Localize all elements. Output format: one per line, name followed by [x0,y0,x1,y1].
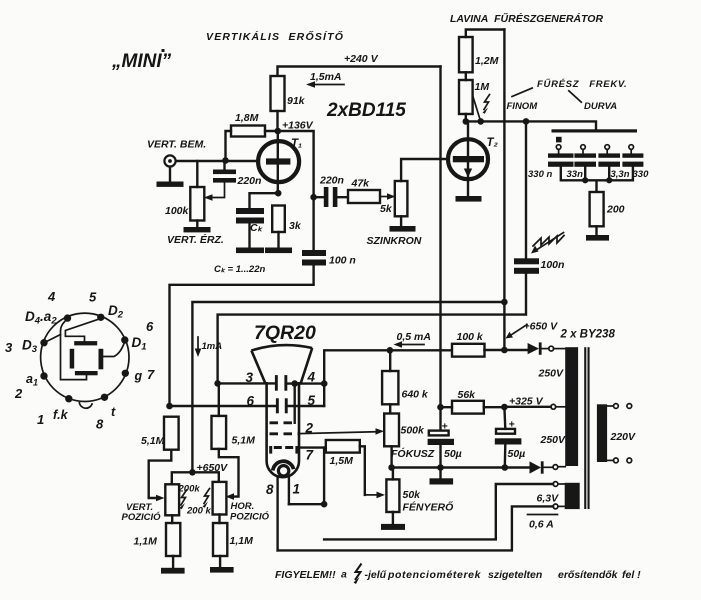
svg-text:g: g [134,369,143,383]
resistor 640k [382,350,429,413]
svg-text:+: + [509,419,515,431]
resistor 5,1M right [212,383,256,449]
svg-text:100 k: 100 k [457,331,484,343]
svg-text:5,1M: 5,1M [141,435,165,447]
svg-text:VERT. ÉRZ.: VERT. ÉRZ. [167,233,224,246]
wire grid7 [298,446,325,448]
resistor 47k [348,178,380,204]
svg-text:1M: 1M [475,81,490,93]
deflection plates 6-5 [247,393,316,413]
node +650V rectifier [501,347,508,354]
node 1M bottom [463,118,470,125]
annotation line DURVA [569,91,582,102]
svg-text:fel !: fel ! [622,569,641,581]
node FINOM [523,118,530,125]
svg-text:POZICIÓ: POZICIÓ [230,511,270,523]
svg-text:5: 5 [89,290,97,305]
grid 7 marks [269,446,314,463]
svg-text:2xBD115: 2xBD115 [326,100,406,121]
transistor T2 [448,121,499,196]
svg-text:6: 6 [146,319,154,334]
ground 1,1M left [161,568,185,574]
wire 5,1M right to wiper [219,449,239,500]
svg-text:91k: 91k [287,95,306,107]
switch contacts [556,145,633,154]
svg-text:a1: a1 [26,372,38,388]
capacitor 33n [567,153,597,180]
svg-text:3,3n: 3,3n [611,169,630,180]
ground T2 [456,196,482,202]
potentiometer 500k FOKUSZ [384,414,435,468]
wire plate3 [218,382,275,384]
node pots feed [189,469,196,476]
resistor 5,1M left [141,417,179,450]
wire emitter to Ck [250,193,279,208]
resistor 1,1M left [134,515,181,568]
diode BY238 lower [530,461,566,473]
svg-text:FINOM: FINOM [507,101,539,112]
transistor T1 [258,131,302,193]
wire pin1 lead [288,476,290,504]
capacitor Ck [236,208,264,248]
node 500k bottom [388,464,395,471]
svg-text:200k: 200k [178,484,201,495]
socket plate bottom [75,371,98,375]
svg-text:5k: 5k [380,203,393,215]
svg-text:D4.a2: D4.a2 [25,309,57,327]
svg-text:T₂: T₂ [487,137,499,149]
socket lead D2 [65,319,100,342]
svg-text:D1: D1 [132,335,147,353]
resistor 1,8M [226,112,275,160]
wire plate6 [170,405,276,407]
wire plate5 [288,405,325,407]
socket plate top [74,341,97,345]
wire +650V feed to position pots [192,302,504,472]
wire pin8 lead [276,477,278,550]
svg-text:250V: 250V [540,434,567,446]
transformer HV winding [565,347,578,466]
transformer 6,3V winding [565,483,580,509]
node plate4 inner [291,380,298,387]
wire +240V rail [278,67,441,77]
bolt 200k left [180,490,187,509]
current arrow 1,5mA [306,71,344,88]
node plate4 outer [321,380,328,387]
svg-text:1,8M: 1,8M [235,112,259,124]
svg-text:33n: 33n [567,169,584,180]
wire heater lower [278,506,553,550]
svg-text:FÉNYERŐ: FÉNYERŐ [403,501,454,514]
svg-text:1,5mA: 1,5mA [310,71,342,83]
svg-text:0,5 mA: 0,5 mA [397,331,431,343]
label +650 V [506,321,559,339]
wire anode riser 0,5mA line [324,350,452,406]
svg-text:7QR20: 7QR20 [254,322,316,344]
node 50u1 bottom [437,464,444,471]
capacitor 50u focus [428,421,462,468]
resistor 3k [272,206,302,248]
svg-text:VERT. BEM.: VERT. BEM. [147,139,206,151]
svg-text:4: 4 [47,289,56,304]
svg-text:1,1M: 1,1M [230,535,254,547]
svg-text:FIGYELEM!!: FIGYELEM!! [275,569,336,581]
switch bar [552,129,638,132]
svg-text:100k: 100k [165,205,190,217]
socket plate right [99,349,104,370]
CRT neck [267,382,299,477]
socket pin6 [121,336,128,343]
CRT funnel [251,345,312,350]
primary terminals bottom [607,458,632,463]
node plate3 [214,380,221,387]
node base [222,157,229,164]
svg-text:DURVA: DURVA [584,101,617,112]
label HOR.POZICIO [230,501,270,523]
socket pin5 [97,314,104,321]
wire +240V to PSU drop [439,67,441,431]
svg-text:50µ: 50µ [444,448,462,460]
node 640k top [387,347,394,354]
svg-text:Cₖ: Cₖ [250,222,264,234]
svg-text:+325 V: +325 V [509,396,544,408]
svg-text:4: 4 [307,370,316,385]
svg-text:Cₖ = 1...22n: Cₖ = 1...22n [214,264,266,275]
wire cathode node [289,448,324,505]
svg-text:1: 1 [293,482,301,497]
socket pin1 [65,395,72,402]
svg-text:0,6 A: 0,6 A [529,519,554,531]
capacitor 330 [622,153,649,180]
svg-text:f.k: f.k [53,408,69,422]
svg-text:T₁: T₁ [291,138,302,150]
svg-text:D2: D2 [108,303,124,321]
transformer primary winding [597,404,607,462]
svg-text:330: 330 [633,169,650,180]
svg-text:330 n: 330 n [528,169,552,180]
ground 5k [390,226,416,232]
svg-text:szigetelten: szigetelten [488,569,542,581]
ground 200 [586,235,609,241]
svg-text:„MINI”: „MINI” [111,51,172,72]
svg-text:220n: 220n [319,175,344,187]
svg-text:50µ: 50µ [508,448,526,460]
socket pin8 [101,394,108,401]
svg-text:47k: 47k [351,178,371,190]
svg-text:1,1M: 1,1M [134,536,158,548]
ground 100k [184,227,211,232]
svg-text:POZICIÓ: POZICIÓ [122,511,162,523]
svg-text:200 k: 200 k [186,506,211,517]
node +650V drop [501,299,508,306]
svg-text:LAVINA FŰRÉSZGENERÁTOR: LAVINA FŰRÉSZGENERÁTOR [450,12,603,25]
node cathode [321,501,328,508]
svg-text:220V: 220V [610,431,637,443]
potentiometer 200k left [165,484,200,516]
current arrow 1mA [195,337,223,357]
primary terminals top [607,404,632,409]
capacitor 50u 325 [495,407,525,468]
capacitor 100n vertical amp [302,250,356,267]
potentiometer 100k VERT.ERZ. [165,161,225,227]
resistor 91k [271,76,306,131]
node sync tap [310,194,317,201]
svg-text:5,1M: 5,1M [232,435,256,447]
svg-text:3: 3 [5,340,13,355]
label VERT.POZICIO [122,502,162,523]
resistor 1,2M [459,30,504,73]
svg-text:220n: 220n [237,175,262,187]
svg-text:SZINKRON: SZINKRON [367,235,422,247]
node capbank left [582,177,588,183]
capacitor 100n sawtooth [514,258,564,274]
socket pin7 [122,370,129,377]
diode BY238 upper [528,342,566,354]
cathode curl [273,461,294,476]
svg-text:250V: 250V [538,368,565,380]
capacitor 220n sync [314,175,348,208]
capacitor 3,3n [598,153,629,180]
sawtooth waveform icon [531,233,564,254]
wire +650V drop [503,30,505,350]
svg-text:6,3V: 6,3V [537,493,560,505]
wire grid2 inner lead [294,384,296,423]
socket lead D4 [61,319,87,380]
svg-text:-jelű: -jelű [365,569,387,581]
svg-text:FŰRÉSZ FREKV.: FŰRÉSZ FREKV. [537,78,627,90]
6,3V terminals [553,482,565,509]
svg-text:erősítendők: erősítendők [558,569,619,581]
capacitor 330n [528,153,574,180]
socket plate left [70,349,75,369]
ground 1,1M right [210,567,234,573]
svg-text:50k: 50k [403,489,422,501]
wire pots top link [172,472,219,484]
svg-text:7: 7 [147,367,155,382]
svg-text:3k: 3k [289,220,302,232]
ground Ck [236,248,264,254]
socket lead D1 [103,341,125,357]
potentiometer 200k right [186,482,226,517]
annotation line FINOM [512,88,532,97]
svg-text:D3: D3 [22,338,38,356]
svg-text:640 k: 640 k [402,389,429,401]
svg-text:7: 7 [306,448,315,463]
svg-text:t: t [111,405,116,419]
wire 1,5M to brightness wiper [360,446,385,498]
svg-text:100 n: 100 n [329,255,356,267]
CRT funnel sides [251,348,312,383]
socket pin2 [40,372,47,379]
svg-text:1,2M: 1,2M [475,55,499,67]
wiper arrow into 5k [380,193,396,200]
svg-text:potenciométerek: potenciométerek [387,569,482,581]
resistor 1,5M [326,440,360,467]
node 50u2 bottom [502,464,509,471]
svg-text:8: 8 [96,417,104,432]
transformer core [584,347,589,509]
svg-text:+136V: +136V [282,120,314,132]
svg-text:2: 2 [14,386,23,401]
bolt 1M [483,95,490,114]
wire collector tap [278,131,314,250]
node +325V [501,404,508,411]
resistor 100k anode [452,331,528,357]
tap +325V [504,396,565,410]
svg-text:+: + [442,421,448,433]
grid 2 dashed [270,421,314,436]
socket notch [79,402,92,408]
switch contact square [556,137,562,143]
ground 3k [265,248,292,254]
wire capbank collector [561,167,633,192]
wire plate4 [287,382,324,384]
wire FINOM drop [525,121,527,258]
potentiometer 5k SZINKRON [380,159,448,226]
svg-text:+650 V: +650 V [524,321,559,333]
svg-text:+240 V: +240 V [344,53,379,65]
node plate6 [166,403,173,410]
socket lead D3 [44,335,61,343]
wire 5,1M left to wiper [149,450,172,502]
svg-text:1mA: 1mA [202,341,223,352]
capacitor 220n input [213,161,261,187]
resistor 1,1M right [213,515,253,568]
svg-text:1: 1 [37,412,44,427]
svg-text:56k: 56k [458,389,477,401]
svg-text:200: 200 [606,204,625,216]
wire common 468 [392,466,530,468]
svg-text:2 x BY238: 2 x BY238 [560,329,616,341]
wire sawtooth to plate3 [218,274,526,384]
ground 50u focus [430,468,454,485]
svg-text:500k: 500k [401,425,426,437]
svg-text:100n: 100n [541,259,565,271]
wire heater upper [324,484,553,539]
node +136V [275,120,314,135]
svg-text:a: a [341,569,347,581]
caution bolt [354,564,362,585]
wire bus sawtooth [466,121,596,129]
potentiometer 1M [459,72,489,121]
node emitter T1 [275,190,282,197]
wire 100n to plate6 [170,266,314,407]
svg-text:1,5M: 1,5M [330,455,354,467]
svg-text:HOR.: HOR. [231,501,255,512]
svg-text:8: 8 [266,482,274,497]
ground 50k [381,524,405,530]
resistor 200 [590,192,625,235]
input jack VERT.BEM. [164,155,175,181]
socket circle [41,313,129,401]
ground input [157,182,184,187]
bolt 200k right [203,489,210,508]
deflection plates 3-4 [246,370,316,391]
svg-text:FÓKUSZ: FÓKUSZ [391,447,435,460]
socket pin3 [40,339,47,346]
socket pin4 [64,314,71,321]
node 56k left [437,404,444,411]
resistor 56k [441,389,505,414]
svg-text:VERTIKÁLIS ERŐSÍTŐ: VERTIKÁLIS ERŐSÍTŐ [206,30,344,43]
wire grid2 to focus wiper [300,428,385,435]
node wiper [477,118,484,125]
current arrow 0,5mA [394,331,431,348]
wire base T1 [176,160,259,162]
potentiometer 50k FENYERO [386,468,453,524]
node capbank right [606,177,612,183]
label 0,6A [528,515,558,531]
